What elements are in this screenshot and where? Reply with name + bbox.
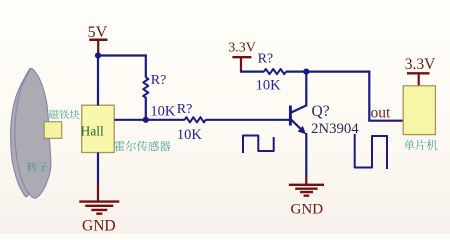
svg-text:10K: 10K (150, 103, 176, 119)
power 3.3V bar left (232, 56, 251, 58)
hall sensor body (82, 105, 115, 152)
svg-text:10K: 10K (256, 78, 282, 94)
junction collector node (303, 69, 309, 75)
transistor Q1 base bar (289, 106, 292, 126)
wire out vertical (368, 71, 370, 121)
waveform symbol 1 (243, 136, 274, 154)
ground bars right (289, 185, 324, 196)
label 霍尔传感器 (114, 141, 170, 152)
junction 5V node (95, 52, 101, 58)
wire R1 bottom lead (145, 97, 147, 121)
power 5V bar (89, 39, 107, 42)
label 磁铁块 (49, 110, 80, 120)
wire hall output (114, 119, 185, 121)
ground stem right (305, 176, 307, 185)
wire collector lead (305, 72, 307, 107)
svg-text:2N3904: 2N3904 (311, 121, 359, 137)
label 单片机 (404, 140, 437, 150)
svg-text:Q?: Q? (312, 103, 330, 120)
svg-text:R?: R? (177, 102, 193, 117)
svg-text:Hall: Hall (81, 124, 104, 139)
mcu body (403, 86, 435, 135)
transistor Q1 emitter arrow (298, 126, 306, 134)
svg-text:GND: GND (291, 202, 324, 218)
wire R3 left lead (240, 70, 264, 72)
waveform symbol 2 (355, 134, 387, 169)
transistor Q1 collector diag (290, 105, 307, 113)
power 3.3V stem right (418, 73, 420, 86)
rotor disc (back face) (11, 68, 34, 196)
wire 5V to hall (97, 54, 99, 105)
transistor Q1 emitter diag (290, 119, 301, 130)
svg-text:3.3V: 3.3V (228, 41, 256, 56)
power 3.3V stem left (240, 57, 242, 71)
wire out to mcu (368, 120, 403, 122)
svg-text:10K: 10K (177, 127, 203, 143)
resistor R1 zigzag (143, 77, 148, 97)
svg-text:GND: GND (82, 218, 116, 235)
wire R1 top lead (145, 56, 147, 78)
ground stem left (97, 184, 99, 202)
svg-text:5V: 5V (88, 24, 108, 41)
wire collector node (286, 70, 369, 72)
wire hall to ground (97, 153, 99, 186)
junction base node (143, 117, 149, 123)
label 转子 (27, 162, 48, 172)
wire emitter lead (305, 133, 307, 177)
wire R2 to base (205, 119, 289, 121)
power 5V stem (97, 40, 99, 56)
rotor disc (front face) (15, 68, 51, 198)
svg-text:out: out (371, 105, 392, 122)
svg-text:R?: R? (151, 73, 167, 88)
resistor R2 zigzag (185, 117, 206, 122)
power 3.3V bar right (407, 72, 430, 74)
svg-text:3.3V: 3.3V (405, 56, 436, 73)
ground bars left (79, 202, 119, 214)
wire 5V node horizontal (97, 54, 147, 56)
resistor R3 zigzag (264, 69, 286, 74)
svg-text:R?: R? (258, 52, 274, 67)
magnet block (44, 122, 62, 139)
